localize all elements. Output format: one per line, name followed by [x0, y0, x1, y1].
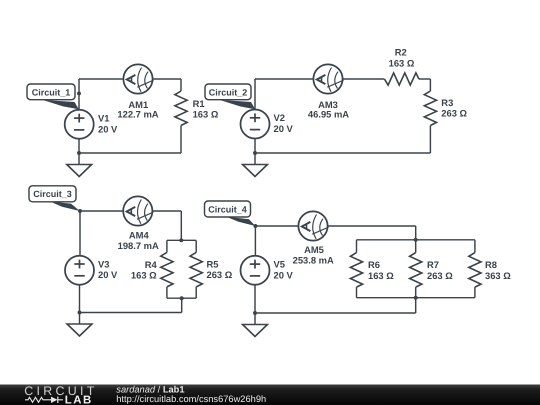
- wire: circuit2 top: [255, 78, 384, 80]
- svg-text:20 V: 20 V: [98, 269, 118, 280]
- svg-text:122.7 mA: 122.7 mA: [117, 108, 158, 119]
- resistor R8: [469, 253, 481, 288]
- svg-text:363 Ω: 363 Ω: [485, 270, 511, 281]
- svg-text:263 Ω: 263 Ω: [207, 269, 233, 280]
- wire: R4 bottom stub: [166, 287, 168, 298]
- wire: R5 bottom stub: [195, 287, 197, 298]
- flag Circuit_3: [50, 202, 80, 212]
- wire: circuit3 top: [80, 210, 181, 212]
- wire: circuit4 top: [255, 225, 415, 227]
- wire: circuit3 bottom bus: [167, 297, 196, 299]
- node: circuit4 corner dot: [253, 224, 257, 228]
- svg-text:R5: R5: [207, 258, 219, 269]
- svg-text:Circuit_4: Circuit_4: [208, 204, 247, 214]
- svg-text:46.95 mA: 46.95 mA: [308, 109, 349, 120]
- svg-text:163 Ω: 163 Ω: [368, 270, 394, 281]
- wire: circuit4 bottom: [255, 312, 416, 314]
- wire: R8 top stub: [474, 240, 476, 253]
- wire: V2 bottom to ground: [254, 139, 256, 165]
- node: circuit4 ground junction: [253, 311, 257, 315]
- svg-text:R8: R8: [485, 259, 497, 270]
- svg-text:163 Ω: 163 Ω: [193, 108, 219, 119]
- wire: V5 bottom to ground: [254, 285, 256, 325]
- node: circuit3 corner dot: [78, 209, 82, 213]
- wire: circuit1 bottom: [79, 152, 181, 154]
- node: circuit4 top bus junction: [414, 238, 418, 242]
- wire: circuit2 bottom: [255, 152, 430, 154]
- svg-text:20 V: 20 V: [274, 123, 294, 134]
- flag Circuit_2: [220, 100, 256, 109]
- node: circuit3 ground junction: [78, 311, 82, 315]
- logo diode: [46, 399, 51, 401]
- svg-text:R6: R6: [368, 259, 380, 270]
- svg-text:R7: R7: [427, 259, 439, 270]
- wire: R2 to corner: [419, 78, 431, 80]
- node: circuit4 bottom bus junction: [414, 296, 418, 300]
- svg-text:Circuit_3: Circuit_3: [33, 189, 72, 199]
- svg-text:R3: R3: [441, 97, 453, 108]
- voltage source V3: [65, 256, 94, 285]
- wire: circuit2 right top stub: [429, 79, 431, 91]
- wire: circuit3 exit down: [181, 298, 183, 312]
- svg-text:163 Ω: 163 Ω: [131, 270, 157, 281]
- ammeter AM1: [123, 64, 152, 93]
- wire: R5 top stub: [195, 240, 197, 252]
- wire: circuit1 R1 top stub: [180, 79, 182, 91]
- flag Circuit_4: [226, 217, 255, 226]
- ammeter AM5: [298, 211, 327, 240]
- svg-text:sardanad / Lab1: sardanad / Lab1: [116, 385, 184, 395]
- wire: circuit4 bottom bus: [357, 297, 475, 299]
- wire: circuit4 left vertical: [254, 226, 256, 256]
- wire: circuit2 right bottom stub: [429, 126, 431, 154]
- svg-text:263 Ω: 263 Ω: [427, 270, 453, 281]
- resistor R6: [350, 253, 362, 288]
- svg-text:V1: V1: [98, 113, 109, 124]
- node: circuit1 ground junction: [77, 151, 81, 155]
- svg-text:163 Ω: 163 Ω: [389, 58, 415, 69]
- wire: circuit4 exit down: [415, 298, 417, 313]
- svg-text:AM4: AM4: [129, 230, 150, 241]
- wire: circuit1 left vertical: [78, 79, 80, 111]
- wire: V1 bottom to ground: [78, 139, 80, 165]
- svg-text:R4: R4: [145, 259, 158, 270]
- wire: circuit4 feed down: [415, 226, 417, 240]
- svg-text:198.7 mA: 198.7 mA: [118, 240, 159, 251]
- ground: circuit3: [67, 324, 92, 336]
- voltage source V5: [241, 256, 270, 285]
- svg-text:AM5: AM5: [304, 244, 324, 255]
- wire: R4 top stub: [166, 240, 168, 252]
- ground: circuit2: [243, 165, 268, 177]
- ammeter AM4: [123, 196, 152, 225]
- flag Circuit_1: [43, 100, 79, 109]
- wire: circuit3 right feed down: [180, 211, 182, 240]
- wire: R7 bottom stub: [415, 287, 417, 298]
- wire: circuit2 left vertical: [254, 79, 256, 111]
- svg-text:253.8 mA: 253.8 mA: [293, 255, 334, 266]
- wire: circuit3 left vertical: [79, 211, 81, 256]
- node: circuit3 top bus junction: [179, 238, 183, 242]
- node: circuit2 ground junction: [253, 151, 257, 155]
- resistor R1: [175, 91, 187, 126]
- resistor R3: [424, 91, 436, 126]
- wire: V3 bottom to ground: [79, 285, 81, 324]
- svg-text:LAB: LAB: [65, 394, 93, 405]
- svg-text:V2: V2: [274, 112, 285, 123]
- resistor R4: [161, 252, 173, 287]
- wire: circuit3 bottom: [80, 312, 182, 314]
- wire: circuit1 R1 bottom stub: [180, 126, 182, 154]
- node: circuit1 flag anchor dot: [77, 91, 81, 95]
- svg-text:20 V: 20 V: [98, 123, 118, 134]
- svg-text:http://circuitlab.com/csns676w: http://circuitlab.com/csns676w26h9h: [116, 394, 266, 404]
- svg-text:263 Ω: 263 Ω: [441, 108, 467, 119]
- wire: circuit3 top bus: [167, 239, 196, 241]
- ground: circuit1: [67, 165, 92, 177]
- wire: R6 top stub: [356, 240, 358, 253]
- wire: circuit1 top: [79, 78, 181, 80]
- svg-text:V5: V5: [274, 259, 285, 270]
- wire: R6 bottom stub: [356, 287, 358, 298]
- svg-text:R1: R1: [193, 98, 205, 109]
- wire: circuit4 top bus: [357, 239, 475, 241]
- svg-text:R2: R2: [395, 47, 407, 58]
- ground: circuit4: [243, 325, 268, 337]
- ammeter AM3: [313, 64, 342, 93]
- resistor R5: [190, 252, 202, 287]
- voltage source V1: [65, 110, 94, 139]
- svg-text:Circuit_1: Circuit_1: [32, 87, 71, 97]
- svg-text:V3: V3: [98, 258, 109, 269]
- svg-text:Circuit_2: Circuit_2: [209, 87, 248, 97]
- node: circuit3 bottom bus junction: [180, 296, 184, 300]
- wire: R8 bottom stub: [474, 287, 476, 298]
- logo resistor zigzag: [25, 397, 46, 402]
- voltage source V2: [241, 110, 270, 139]
- svg-text:20 V: 20 V: [274, 269, 294, 280]
- wire: R7 top stub: [415, 240, 417, 253]
- resistor R2: [384, 73, 419, 85]
- resistor R7: [410, 253, 422, 288]
